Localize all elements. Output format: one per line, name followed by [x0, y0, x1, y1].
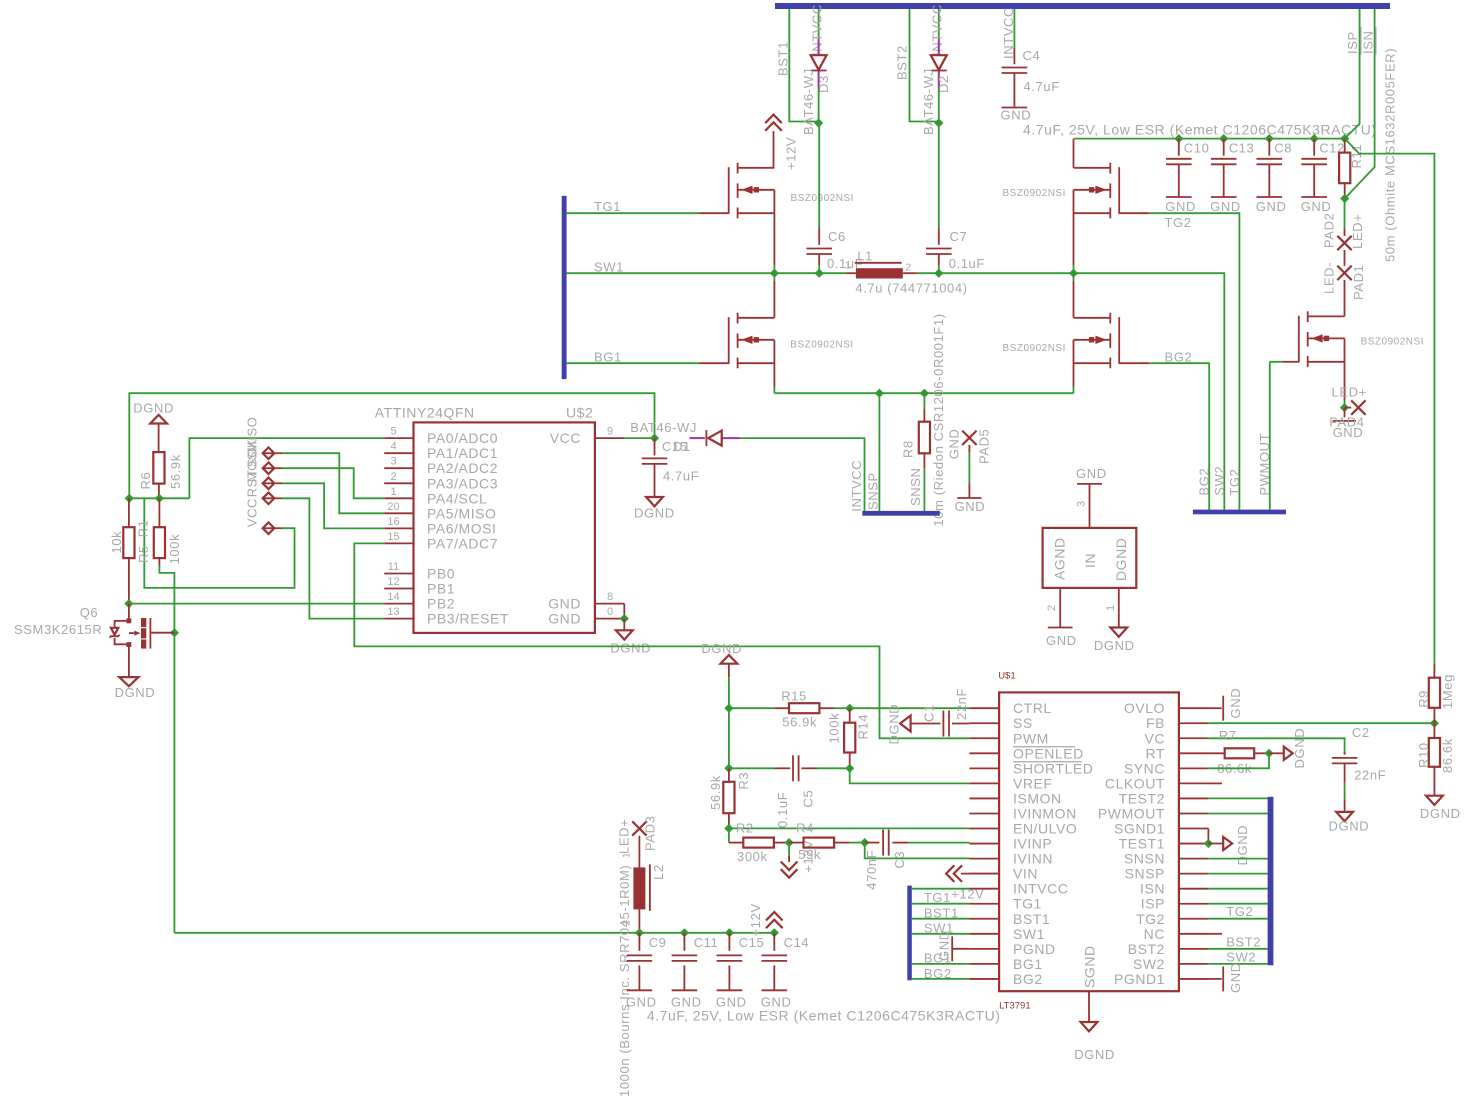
pin 3 PA2/ADC2 (U$2): [384, 467, 413, 469]
capacitor C15 (input): [728, 933, 730, 951]
resistor R9: [1433, 664, 1435, 678]
svg-text:SNSP: SNSP: [865, 472, 880, 510]
svg-text:LED-: LED-: [1322, 262, 1337, 294]
svg-text:TG1: TG1: [1013, 896, 1042, 912]
wire BG1: [567, 362, 699, 364]
svg-text:R2: R2: [736, 821, 754, 836]
wire INTVCC from D1: [740, 438, 865, 511]
junction VOUT/C8: [1265, 134, 1274, 143]
svg-text:TG1: TG1: [594, 199, 621, 214]
ground DGND (R7): [1269, 752, 1284, 754]
svg-text:GND: GND: [1301, 199, 1332, 214]
svg-text:ISN: ISN: [1360, 31, 1375, 54]
wire SW2 to right bus: [1208, 963, 1267, 965]
wire BST1 (U$1): [912, 918, 970, 920]
ground DGND (jumper pin1): [1110, 628, 1127, 637]
wire INTVCC to D2: [938, 9, 940, 39]
svg-text:LED+: LED+: [1350, 214, 1365, 249]
junction VOUT/C12: [1310, 134, 1319, 143]
svg-text:GND: GND: [947, 429, 962, 460]
svg-text:BG2: BG2: [1013, 971, 1043, 987]
pin BG1 (U$1): [969, 963, 999, 965]
svg-text:IVINN: IVINN: [1013, 851, 1053, 867]
pin INTVCC (U$1): [969, 888, 999, 890]
wire MOSI to PA6: [282, 483, 384, 528]
svg-text:C8: C8: [1274, 141, 1292, 156]
junction R3/R2/EN: [724, 824, 733, 833]
svg-text:1Meg: 1Meg: [1440, 674, 1455, 709]
svg-text:U$2: U$2: [566, 405, 593, 421]
wire TEST2 to right bus: [1208, 797, 1267, 799]
pin TEST1 (U$1): [1179, 843, 1209, 845]
pin SGND1 (U$1): [1179, 828, 1209, 830]
pin TG1 (U$1): [969, 903, 999, 905]
ground GND (C8): [1257, 196, 1283, 198]
svg-text:50m (Ohmite MCS1632R005FER): 50m (Ohmite MCS1632R005FER): [1383, 48, 1398, 262]
pin 1 (jumper): [1118, 588, 1120, 628]
wire ISP: [1345, 9, 1360, 139]
resistor R8 sense: [923, 393, 925, 408]
svg-text:SNSN: SNSN: [1124, 851, 1165, 867]
pin 15 PA7/ADC7 (U$2): [384, 542, 413, 544]
svg-text:C10: C10: [1184, 141, 1210, 156]
diode D1 BAT46-WJ: [705, 430, 707, 446]
ground GND (C12): [1301, 196, 1327, 198]
svg-text:SSM3K2615R: SSM3K2615R: [14, 622, 102, 637]
svg-text:R8: R8: [900, 440, 915, 458]
svg-text:L2: L2: [651, 864, 666, 880]
connector pad VCC (ISP): [263, 522, 275, 534]
junction R3/C5: [724, 764, 733, 773]
svg-text:3: 3: [1076, 501, 1088, 507]
svg-text:PAD5: PAD5: [976, 429, 991, 464]
svg-text:R7: R7: [1219, 728, 1237, 743]
junction D2/BST2/C7: [934, 118, 943, 127]
svg-text:16: 16: [387, 516, 399, 528]
svg-text:PB0: PB0: [427, 566, 455, 582]
svg-text:PAD2: PAD2: [1322, 213, 1337, 248]
junction VCC/R6: [155, 494, 164, 503]
svg-text:SW2: SW2: [1212, 466, 1227, 496]
wire BST1: [789, 9, 818, 122]
junction SW1/C6: [815, 269, 824, 278]
resistor R6: [153, 452, 164, 484]
svg-text:GND: GND: [1001, 108, 1032, 123]
wire U$2 VCC to C15/D1 node: [624, 437, 654, 439]
svg-text:NC: NC: [1144, 926, 1165, 942]
wire M3 drain to output rail: [1073, 139, 1075, 168]
capacitor C8: [1268, 139, 1270, 156]
ground GND (PAD5): [957, 497, 981, 499]
svg-text:L1: L1: [857, 249, 873, 264]
capacitor C4: [1013, 48, 1015, 65]
svg-text:DGND: DGND: [115, 685, 156, 700]
svg-text:PAD3: PAD3: [643, 816, 658, 851]
ground GND (C15): [717, 989, 743, 991]
svg-text:C9: C9: [649, 935, 667, 950]
svg-text:4.7uF, 25V, Low ESR (Kemet C12: 4.7uF, 25V, Low ESR (Kemet C1206C475K3RA…: [647, 1008, 1001, 1024]
resistor R14: [849, 708, 851, 723]
bus INTVCC/SNSP/SNSN horizontal bar: [862, 511, 940, 516]
supply +12V arrow down (R2/R4): [788, 843, 790, 858]
junction +12V/C9: [635, 928, 644, 937]
diode D1 BAT46-WJ pin leads: [690, 437, 705, 439]
wire INTVCC to C4: [1013, 9, 1015, 48]
capacitor C14 (input): [773, 933, 775, 951]
wire VREF: [850, 768, 970, 783]
svg-text:ISP: ISP: [1141, 896, 1165, 912]
pin BG2 (U$1): [969, 978, 999, 980]
svg-text:1: 1: [622, 852, 633, 858]
pin PGND1 (U$1): [1179, 978, 1209, 980]
svg-text:BST2: BST2: [1128, 941, 1165, 957]
svg-text:11: 11: [388, 561, 399, 573]
capacitor C2: [1344, 752, 1346, 755]
wire BG1 (U$1): [912, 963, 970, 965]
svg-text:DGND: DGND: [886, 704, 901, 745]
wire VCC node to VCC pad: [144, 498, 294, 588]
svg-text:13: 13: [387, 606, 399, 618]
wire BST2 to right bus: [1208, 948, 1267, 950]
svg-text:0: 0: [607, 606, 613, 618]
wire IVINP: [908, 842, 969, 844]
bus +12V/INTVCC top horizontal bus bar: [775, 3, 1390, 9]
svg-text:10k: 10k: [109, 531, 124, 554]
wire M4 source to SNSP rail: [1073, 340, 1075, 387]
IC jumper IN/AGND/DGND box: [1043, 528, 1137, 588]
resistor R7: [1208, 752, 1224, 754]
transistor M5 gate pin: [1283, 361, 1299, 363]
svg-text:C3: C3: [892, 851, 907, 869]
junction VOUT/C13: [1219, 134, 1228, 143]
junction PAD4/LED+: [1340, 403, 1349, 412]
svg-text:GND: GND: [548, 611, 581, 627]
wire VC to C2: [1208, 738, 1344, 754]
transistor M4 gate pin: [1119, 362, 1149, 364]
svg-text:TG2: TG2: [1136, 911, 1165, 927]
pin VREF (U$1): [969, 782, 999, 784]
svg-text:DGND: DGND: [634, 506, 675, 521]
wire FB: [1208, 722, 1434, 724]
pin 20 PA5/MISO (U$2): [384, 512, 413, 514]
resistor R5: [128, 498, 130, 527]
svg-text:C1: C1: [922, 704, 937, 722]
resistor R15: [729, 707, 775, 709]
svg-text:U$1: U$1: [998, 670, 1015, 681]
svg-text:BST1: BST1: [1013, 911, 1050, 927]
svg-text:LED+: LED+: [617, 819, 632, 854]
svg-text:ISP: ISP: [1345, 31, 1360, 54]
svg-text:R3: R3: [736, 772, 751, 790]
svg-text:GND: GND: [955, 499, 986, 514]
svg-text:INTVCC: INTVCC: [930, 4, 945, 56]
svg-text:5: 5: [390, 426, 396, 438]
svg-text:R15: R15: [781, 689, 807, 704]
svg-text:300k: 300k: [737, 849, 768, 864]
capacitor C10: [1178, 139, 1180, 156]
ground GND (C14): [762, 989, 788, 991]
pin 14 PB2 (U$2): [384, 603, 413, 605]
pin 16 PA6/MOSI (U$2): [384, 527, 413, 529]
svg-text:PWM: PWM: [1013, 730, 1049, 746]
svg-text:22nF: 22nF: [1354, 767, 1386, 782]
resistor R10: [1433, 723, 1435, 738]
svg-text:SW1: SW1: [1013, 926, 1045, 942]
svg-text:DGND: DGND: [1420, 806, 1461, 821]
wire ISP to right bus: [1208, 903, 1267, 905]
junction VCC/R5: [125, 494, 134, 503]
capacitor C7: [938, 123, 940, 228]
svg-text:R6: R6: [138, 472, 153, 490]
svg-text:0.1uF: 0.1uF: [949, 256, 985, 271]
junction Q6 gate: [170, 628, 179, 637]
wire VCC node to PA0: [129, 438, 384, 498]
pad PAD2 (LED+): [1337, 236, 1351, 250]
wire TG1 (U$1): [912, 903, 970, 905]
wire CTRL: [850, 707, 970, 709]
junction R15/R14/CTRL: [845, 704, 854, 713]
svg-text:SHORTLED: SHORTLED: [1013, 760, 1093, 776]
svg-text:GND: GND: [548, 596, 581, 612]
svg-text:SGND1: SGND1: [1114, 821, 1165, 837]
capacitor C5: [729, 767, 775, 769]
svg-text:BAT46-WJ: BAT46-WJ: [921, 68, 936, 135]
pin 5 PA0/ADC0 (U$2): [384, 437, 413, 439]
bus TG1/BST1/SW1/BG1/BG2 left bar (U$1): [907, 886, 912, 981]
pad PAD1 (LED-): [1337, 266, 1351, 280]
junction R2/R4/+12V: [785, 838, 794, 847]
resistor R4: [789, 842, 803, 844]
svg-text:FB: FB: [1146, 715, 1165, 731]
svg-text:C4: C4: [1023, 48, 1041, 63]
transistor M2 BSZ0902NSI: [737, 313, 739, 324]
pin TEST2 (U$1): [1179, 797, 1209, 799]
pin FB (U$1): [1179, 722, 1209, 724]
svg-text:R1: R1: [136, 519, 151, 537]
pin 9 VCC (U$2): [595, 437, 624, 439]
diode D2 BAT46-WJ pin leads: [938, 39, 940, 56]
pin SYNC (U$1): [1179, 767, 1209, 769]
junction +12V/C14: [770, 928, 779, 937]
svg-text:100k: 100k: [827, 713, 842, 744]
svg-text:10m (Riedon CSR1206-0R001F1): 10m (Riedon CSR1206-0R001F1): [931, 313, 946, 526]
wire PAD1 to M5 drain: [1344, 280, 1346, 317]
svg-text:12: 12: [387, 576, 399, 588]
connector pad SCK (ISP): [263, 462, 275, 474]
pin 8 GND (U$2): [595, 603, 624, 605]
svg-text:PA5/MISO: PA5/MISO: [427, 505, 497, 521]
transistor Q6 SSM3K2615R: [128, 604, 130, 620]
svg-text:CLKOUT: CLKOUT: [1105, 775, 1165, 791]
supply +12V arrow left (VIN): [946, 865, 962, 882]
pin SNSN (U$1): [1179, 858, 1209, 860]
svg-text:CTRL: CTRL: [1013, 700, 1052, 716]
wire TG1: [567, 212, 699, 214]
wire M1 source to SW1: [773, 190, 775, 265]
svg-text:GND: GND: [1228, 962, 1243, 993]
diode D3 BAT46-WJ pin leads: [818, 39, 820, 56]
wire SNSP to bus: [878, 393, 880, 511]
svg-text:R14: R14: [855, 714, 870, 740]
bus TG1/SW1/BG1 vertical bar: [562, 196, 567, 379]
diode D2 BAT46-WJ: [931, 55, 947, 70]
pin 0 GND (U$2): [595, 618, 624, 620]
svg-text:+12V: +12V: [784, 137, 799, 170]
pin 4 PA1/ADC1 (U$2): [384, 452, 413, 454]
pin PWMOUT (U$1): [1179, 812, 1209, 814]
svg-text:PWMOUT: PWMOUT: [1098, 805, 1165, 821]
wire INTVCC to D3: [818, 9, 820, 39]
resistor R1: [158, 498, 160, 527]
svg-text:2: 2: [1046, 605, 1058, 611]
wire TG2 to right bus: [1208, 918, 1267, 920]
wire M2 source to SNSP rail: [773, 340, 775, 387]
junction SW1/M3/M4: [1069, 269, 1078, 278]
svg-text:TEST1: TEST1: [1119, 836, 1165, 852]
wire VCC top loop (U$2 VCC to R6/R5 node): [129, 393, 654, 498]
svg-text:0.1uF: 0.1uF: [775, 792, 790, 828]
svg-text:TEST2: TEST2: [1119, 790, 1165, 806]
svg-text:VC: VC: [1144, 730, 1165, 746]
svg-text:470nF: 470nF: [864, 850, 879, 890]
wire R1 bottom to +12V rail: [159, 566, 174, 933]
svg-text:C2: C2: [1352, 725, 1370, 740]
svg-text:BG1: BG1: [1013, 956, 1043, 972]
svg-text:GND: GND: [1210, 199, 1241, 214]
svg-text:D1: D1: [673, 439, 691, 454]
svg-text:+12V: +12V: [748, 903, 763, 936]
wire D2 cathode to BST2 node: [938, 88, 940, 123]
wire PAD2 to PAD1: [1344, 250, 1346, 266]
svg-text:BAT46-WJ: BAT46-WJ: [630, 420, 697, 435]
junction SNSN rail: [920, 389, 929, 398]
svg-text:PB2: PB2: [427, 596, 455, 612]
pin SW1 (U$1): [969, 933, 999, 935]
svg-text:GND: GND: [1165, 199, 1196, 214]
ground GND (PAD4): [1344, 408, 1346, 418]
svg-text:SS: SS: [1013, 715, 1033, 731]
svg-text:R11: R11: [1349, 144, 1364, 169]
junction VOUT/R11: [1340, 134, 1349, 143]
svg-text:DGND: DGND: [1329, 818, 1370, 833]
pin NC (U$1): [1179, 933, 1209, 935]
pin IVINN (U$1): [969, 858, 999, 860]
svg-text:DGND: DGND: [1113, 538, 1129, 581]
svg-text:INTVCC: INTVCC: [849, 460, 864, 512]
svg-text:GND: GND: [1228, 688, 1243, 719]
supply +12V arrow (M1 drain): [765, 115, 782, 131]
svg-text:OVLO: OVLO: [1124, 700, 1165, 716]
svg-text:ISMON: ISMON: [1013, 790, 1062, 806]
svg-text:86.6k: 86.6k: [1440, 738, 1455, 773]
svg-text:AGND: AGND: [1052, 537, 1068, 580]
capacitor C9 (input): [638, 933, 640, 951]
wire BG2: [1149, 363, 1209, 509]
supply +12V arrow up (input rail): [766, 912, 783, 928]
junction D3/BST1/C6: [814, 118, 823, 127]
pin SS (U$1): [969, 722, 999, 724]
ground GND (PGND1): [1208, 978, 1221, 980]
pin EN/ULVO (U$1): [969, 828, 999, 830]
svg-text:56.9k: 56.9k: [708, 775, 723, 810]
svg-text:GND: GND: [1256, 199, 1287, 214]
wire PA7 to U$1 PWM: [354, 543, 969, 738]
transistor M1 BSZ0902NSI: [737, 163, 739, 174]
svg-text:9: 9: [607, 426, 613, 438]
junction SW1/C7: [934, 269, 943, 278]
wire MISO to PA5: [282, 453, 384, 513]
wire M3 source to SW: [1073, 190, 1075, 265]
wire BG2 (U$1): [912, 978, 970, 980]
wire SYNC loop: [1208, 753, 1269, 768]
wire PAD5 to GND: [968, 445, 970, 453]
svg-text:VIN: VIN: [1013, 866, 1038, 882]
svg-text:BG2: BG2: [1197, 468, 1212, 496]
junction R14/C5/VREF: [845, 764, 854, 773]
svg-text:VREF: VREF: [1013, 775, 1053, 791]
svg-text:4.7u (744771004): 4.7u (744771004): [855, 281, 967, 296]
junction R7/SYNC/DGND: [1264, 749, 1273, 758]
svg-text:BSZ0902NSI: BSZ0902NSI: [790, 340, 853, 351]
wire SNSP to right bus: [1208, 873, 1267, 875]
wire R15 node to C5/R3: [728, 708, 730, 768]
capacitor C6: [818, 123, 820, 228]
svg-text:4.7uF: 4.7uF: [663, 469, 699, 484]
svg-text:BST1: BST1: [776, 41, 791, 76]
wire IVINN: [865, 843, 970, 859]
pin SNSP (U$1): [1179, 873, 1209, 875]
pin ISP (U$1): [1179, 903, 1209, 905]
pin OVLO (U$1): [1179, 707, 1209, 709]
svg-text:2: 2: [390, 471, 396, 483]
wire RST to PB3: [282, 498, 384, 618]
svg-text:BG1: BG1: [594, 350, 622, 365]
connector pad MOSI (ISP): [263, 478, 275, 490]
pin VIN (U$1): [969, 873, 999, 875]
capacitor C11 (input): [683, 933, 685, 951]
svg-text:R9: R9: [1416, 690, 1431, 708]
inductor L1 744771004: [847, 272, 856, 274]
wire BST2: [910, 9, 939, 122]
wire LED+ feedback to R9: [1345, 139, 1435, 664]
wire TG2: [1149, 213, 1239, 509]
wire SGND1 to TEST1 node: [1207, 829, 1209, 844]
svg-text:1: 1: [390, 486, 396, 498]
junction FB/R9/R10: [1430, 719, 1439, 728]
ground GND (jumper pin2): [1048, 627, 1073, 629]
svg-text:DGND: DGND: [610, 641, 651, 656]
pin BST1 (U$1): [969, 918, 999, 920]
svg-text:SNSN: SNSN: [908, 467, 923, 506]
svg-text:56.9k: 56.9k: [168, 454, 183, 489]
svg-text:PA4/SCL: PA4/SCL: [427, 490, 487, 506]
pin 2 (jumper): [1059, 588, 1061, 628]
svg-text:BG2: BG2: [1165, 350, 1193, 365]
pin 2 PA3/ADC3 (U$2): [384, 482, 413, 484]
svg-text:PGND1: PGND1: [1114, 971, 1165, 987]
capacitor C15 (bypass): [654, 438, 656, 455]
ground GND (jumper pin3): [1077, 483, 1102, 485]
junction R15/DGND: [724, 704, 733, 713]
junction +12V/C15: [725, 928, 734, 937]
svg-text:ATTINY24QFN: ATTINY24QFN: [375, 405, 475, 421]
pin CLKOUT (U$1): [1179, 782, 1209, 784]
IC U$1 LT3791 box: [999, 692, 1179, 991]
svg-text:R10: R10: [1416, 742, 1431, 768]
pin 3 (jumper): [1089, 484, 1091, 528]
ground GND (PGND): [951, 936, 953, 961]
ground DGND (C15): [646, 497, 663, 506]
